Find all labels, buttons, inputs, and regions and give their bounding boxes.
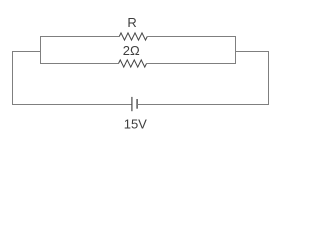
battery 15V short plate (right): [136, 99, 138, 109]
wire right feed from node B to outer loop: [236, 51, 269, 53]
resistor 2Ω (zigzag): [119, 60, 147, 67]
wire right outer vertical: [268, 51, 270, 105]
wire left outer vertical: [12, 51, 14, 105]
svg-text:15V: 15V: [124, 117, 147, 132]
wire bottom branch right lead: [147, 63, 236, 65]
resistor R (zigzag): [119, 33, 147, 40]
svg-text:R: R: [127, 15, 136, 30]
wire bottom left (to battery negative plate): [13, 104, 132, 106]
wire left feed from outer loop to node A: [13, 51, 41, 53]
wire right junction bar of parallel box (node B): [235, 36, 237, 64]
wire top branch right lead: [147, 36, 235, 38]
wire left junction bar of parallel box (node A): [40, 36, 42, 64]
wire top branch left lead: [41, 36, 120, 38]
wire bottom branch left lead: [41, 63, 119, 65]
svg-text:2Ω: 2Ω: [123, 43, 140, 58]
battery 15V long plate (left): [131, 97, 133, 111]
wire bottom right (from battery positive plate): [137, 104, 268, 106]
